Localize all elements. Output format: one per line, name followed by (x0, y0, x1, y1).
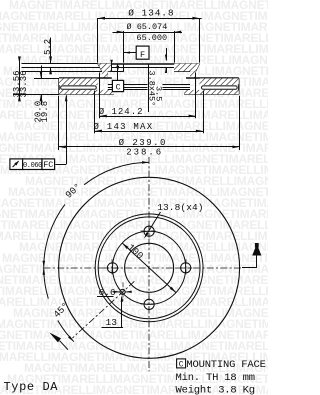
extension line ring inner left down (94, 91, 96, 134)
svg-text:C: C (116, 82, 121, 92)
dimension 124.2 line (100, 116, 196, 118)
front bolt circle (113, 231, 186, 304)
svg-text:13.8(x4): 13.8(x4) (157, 202, 203, 213)
hatch ring right bottom (184, 90, 239, 94)
runout frame box (10, 159, 23, 170)
dimension 239 line (59, 146, 240, 148)
hat left wall outer (102, 71, 104, 78)
dimension 6.6 underline (97, 296, 114, 298)
hatch hat left wall (102, 71, 108, 78)
extension line recess face (22, 67, 175, 69)
vent slot right (203, 86, 237, 89)
extension line ring outer right down (239, 96, 241, 150)
svg-text:65.000: 65.000 (137, 33, 168, 43)
ring bottom right (184, 93, 239, 95)
extension line mf right down (195, 73, 197, 119)
ring bottom left (59, 93, 114, 95)
extension line hat left up (97, 18, 99, 62)
hat left chamfer (98, 64, 102, 72)
extension line ring bottom left (14, 94, 60, 96)
dimension 20.0/19.8 line (41, 66, 43, 79)
svg-text:F: F (140, 50, 145, 60)
vent slot left (61, 86, 95, 89)
svg-text:Ø 65.074: Ø 65.074 (127, 22, 168, 32)
hat left wall inner (107, 71, 109, 78)
svg-text:19.8: 19.8 (40, 101, 50, 123)
dimension 134.8 line (97, 18, 202, 20)
svg-text:5.2: 5.2 (43, 39, 53, 55)
hole 6.6 (120, 289, 125, 294)
svg-text:13: 13 (106, 317, 118, 328)
inner vent line 1 (108, 84, 148, 86)
bolt hole edge in flange (111, 64, 113, 72)
arc arrow bottom (68, 336, 74, 342)
front ring inner circle (95, 214, 203, 322)
extension line hat top face left (22, 63, 98, 65)
bolt hole N (144, 226, 154, 236)
bolt hole E (181, 263, 191, 273)
angular dimension arc 45 span (44, 268, 49, 299)
hole 6.6 horizontal crosshair (115, 291, 131, 293)
svg-text:Weight 3.8 Kg: Weight 3.8 Kg (176, 384, 255, 395)
datum C leader (117, 64, 119, 80)
big arrow at 45 deg corner (49, 332, 61, 342)
extension line mounting face level left (22, 71, 103, 73)
dimension 5.2 line (50, 38, 52, 64)
svg-text:C: C (179, 360, 184, 369)
datum F box (136, 46, 149, 59)
front bore circle (125, 243, 174, 292)
inner vent line 2 (108, 87, 148, 89)
front horizontal centerline (44, 267, 243, 269)
balance mark stem (242, 267, 257, 269)
dimension 13 leader (121, 298, 123, 328)
balance mark symbol (252, 248, 261, 256)
dimension 6.6 arrows (114, 291, 121, 293)
dimension 65 line (113, 32, 183, 34)
hatch ring right top (200, 78, 239, 85)
svg-text:33.36: 33.36 (19, 70, 29, 97)
arc arrow left upper (43, 261, 46, 268)
bore right wall (174, 64, 176, 72)
front outer circle (59, 177, 240, 358)
vent slot left cap (95, 86, 97, 89)
bolt hole W (107, 263, 117, 273)
arc arrow top (142, 161, 149, 164)
dimension 3.5 arrows (166, 48, 168, 61)
hat right wall outer (195, 71, 197, 78)
dimension 100 line (122, 243, 176, 293)
extension line mf left down (99, 73, 101, 119)
hatch hat right wall (190, 71, 196, 78)
hatch hat left flange (98, 64, 112, 72)
inner vent line 3 (108, 89, 148, 91)
extension line hat right up (199, 18, 201, 62)
svg-text:0.060: 0.060 (23, 162, 42, 170)
extension line bore left up (123, 31, 125, 63)
ring top right (186, 77, 239, 79)
extension line bore right up (174, 31, 176, 63)
svg-text:FC: FC (43, 160, 53, 170)
angular dimension arc 90 span (84, 162, 149, 184)
arc arrow left lower (43, 268, 46, 275)
extension line ring top left (34, 78, 59, 80)
extension line ring outer left down (58, 96, 60, 150)
hatch hat right flange (174, 64, 200, 72)
runout frame leader (55, 164, 66, 166)
small arrow at hat top (111, 61, 113, 64)
ring top left (59, 77, 112, 79)
hat top face (98, 63, 200, 65)
bolt hole S (144, 299, 154, 309)
svg-text:Ø 143 MAX: Ø 143 MAX (94, 122, 154, 132)
extension line chamfer center (148, 64, 150, 112)
ring left edge (58, 78, 60, 94)
dimension 13 line (102, 327, 124, 329)
extension line ring inner right down (203, 91, 205, 134)
hat right wall inner (190, 71, 192, 78)
svg-text:MOUNTING FACE: MOUNTING FACE (186, 359, 265, 371)
svg-text:Ø 134.8: Ø 134.8 (128, 7, 174, 18)
dimension 33.56/33.36 line (19, 57, 21, 102)
dimension 143 line (95, 131, 203, 133)
svg-text:Min. TH 18 mm: Min. TH 18 mm (176, 372, 255, 384)
vent slot right cap (202, 86, 204, 89)
svg-text:3.5: 3.5 (153, 86, 163, 101)
hat right chamfer (196, 64, 200, 72)
mounting face right (174, 71, 196, 73)
bore left wall (123, 64, 125, 72)
front vertical centerline (148, 157, 150, 372)
svg-text:Type DA: Type DA (4, 380, 59, 394)
datum F leader (124, 52, 136, 54)
ring right edge (238, 78, 240, 94)
mounting face C box (177, 359, 186, 368)
front hat circle (98, 217, 200, 319)
runout symbol (13, 161, 19, 167)
hole 6.6 vertical crosshair (122, 282, 124, 301)
leader 13.8 (145, 212, 160, 237)
svg-text:Ø 124.2: Ø 124.2 (99, 107, 144, 117)
datum C box (112, 80, 123, 91)
mounting face left (102, 71, 124, 73)
radial centerline 222° (72, 281, 134, 338)
hatch ring left bottom (59, 90, 114, 94)
svg-text:238.6: 238.6 (126, 147, 163, 157)
hatch ring left top (59, 78, 98, 85)
